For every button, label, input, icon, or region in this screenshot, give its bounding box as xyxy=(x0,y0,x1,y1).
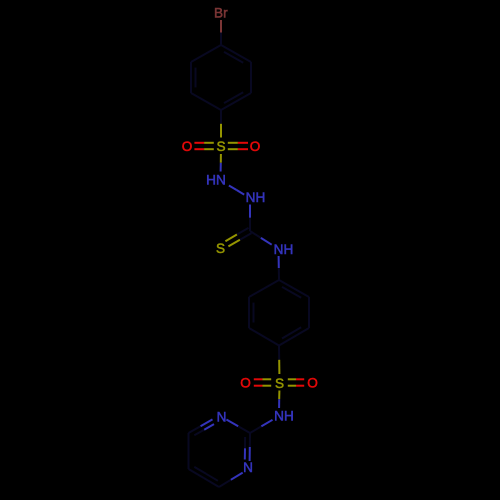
svg-text:HN: HN xyxy=(206,173,226,188)
svg-text:O: O xyxy=(250,139,261,154)
svg-text:S: S xyxy=(275,376,284,391)
svg-text:N: N xyxy=(217,410,227,425)
svg-text:O: O xyxy=(182,139,193,154)
svg-text:NH: NH xyxy=(274,409,294,424)
svg-text:S: S xyxy=(216,241,225,256)
svg-text:NH: NH xyxy=(246,190,266,205)
svg-text:N: N xyxy=(243,460,253,475)
svg-text:Br: Br xyxy=(214,6,228,21)
svg-text:O: O xyxy=(307,376,318,391)
svg-text:S: S xyxy=(216,139,225,154)
svg-text:O: O xyxy=(240,376,251,391)
svg-text:NH: NH xyxy=(274,242,294,257)
